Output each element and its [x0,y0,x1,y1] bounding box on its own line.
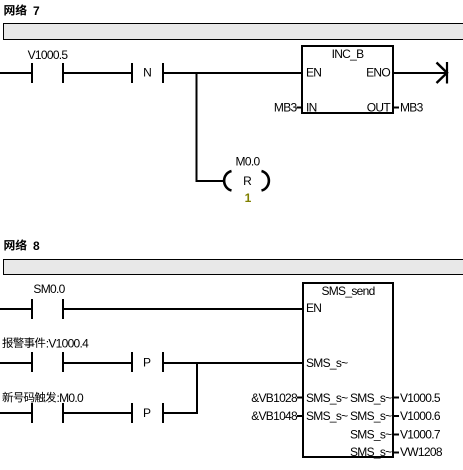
svg-text:EN: EN [306,301,321,315]
tick out1 [393,397,399,399]
svg-text:SMS_s~: SMS_s~ [306,356,348,370]
junction node branch [196,72,198,182]
svg-text:N: N [143,66,152,80]
network 8 comment bar [4,260,463,275]
network 7 title [4,4,26,15]
svg-text:SMS_send: SMS_send [321,284,374,298]
svg-text:V1000.6: V1000.6 [400,409,441,423]
tick OUT [393,107,399,109]
arrow (open line end) [437,62,448,84]
label 报警事件:V1000.4 [2,337,45,348]
contact P2 bar 2 [162,403,164,423]
wire contact M0.0 to contact P2 [64,412,131,414]
tick out3 [393,434,399,436]
svg-text:P: P [143,356,151,370]
svg-text:SMS_s~: SMS_s~ [350,445,392,459]
coil R left paren [224,171,231,191]
tick VB1028 [297,397,303,399]
contact M0.0 bar 2 [62,403,64,423]
contact N bar 1 [131,63,133,83]
contact V1000.4 bar 1 [31,352,33,372]
svg-text:7: 7 [33,4,40,18]
tick VB1048 [297,415,303,417]
svg-text:SMS_s~: SMS_s~ [306,409,348,423]
svg-text:MB3: MB3 [274,101,298,115]
svg-text:SMS_s~: SMS_s~ [350,409,392,423]
svg-text:1: 1 [245,191,252,205]
wire contact V1000.4 to contact P [64,362,131,364]
wire contact SM0.0 to box SMS_send EN [64,308,303,310]
svg-text:SMS_s~: SMS_s~ [350,428,392,442]
contact N bar 2 [162,63,164,83]
contact V1000.4 bar 2 [62,352,64,372]
wire contact P2 to junction [164,412,198,414]
svg-text:8: 8 [33,239,40,253]
tick IN [297,107,303,109]
wire left rail to contact M0.0 [0,412,31,414]
svg-text::V1000.4: :V1000.4 [46,337,89,351]
svg-text:SMS_s~: SMS_s~ [306,391,348,405]
contact P1 bar 1 [131,352,133,372]
contact M0.0 bar 1 [31,403,33,423]
wire contact P1 to box SMS_s input [164,362,303,364]
svg-text:R: R [243,174,252,188]
contact P1 bar 2 [162,352,164,372]
label 新号码触发:M0.0 [2,392,56,403]
wire left rail to contact V1000.4 [0,362,31,364]
network 7 comment bar [4,24,463,40]
svg-text:SM0.0: SM0.0 [33,282,65,296]
svg-text:P: P [143,406,151,420]
wire contact N to box INC_B [164,72,302,74]
tick out2 [393,415,399,417]
contact V1000.5 bar 2 [62,63,64,83]
contact P2 bar 1 [131,403,133,423]
svg-text:IN: IN [306,101,317,115]
svg-text:ENO: ENO [366,66,390,80]
svg-text::M0.0: :M0.0 [57,391,85,405]
svg-text:SMS_s~: SMS_s~ [350,391,392,405]
contact SM0.0 bar 1 [31,299,33,319]
svg-text:V1000.5: V1000.5 [28,48,69,62]
svg-text:V1000.7: V1000.7 [400,428,441,442]
svg-text:M0.0: M0.0 [236,155,261,169]
svg-text:INC_B: INC_B [332,47,365,61]
coil R right paren [262,171,269,191]
svg-text:MB3: MB3 [400,101,424,115]
svg-text:&VB1028: &VB1028 [251,391,298,405]
svg-text:VW1208: VW1208 [400,445,443,459]
contact V1000.5 bar 1 [31,63,33,83]
network 8 title [4,239,26,250]
svg-text:&VB1048: &VB1048 [251,409,298,423]
junction branch net8 [196,362,198,414]
svg-text:OUT: OUT [367,101,392,115]
wire contact V1000.5 to contact N [64,72,131,74]
box INC_B [302,46,393,113]
wire branch to coil R [196,180,224,182]
svg-text:EN: EN [306,66,321,80]
tick out4 [393,452,399,454]
wire left rail to contact SM0.0 [0,308,31,310]
wire ENO to arrow [393,72,446,74]
box SMS_send [303,283,393,457]
contact SM0.0 bar 2 [62,299,64,319]
svg-text:V1000.5: V1000.5 [400,391,441,405]
wire left rail to contact V1000.5 [0,72,31,74]
